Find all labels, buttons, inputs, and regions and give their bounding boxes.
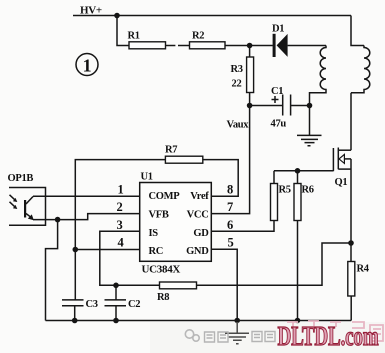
node opto emitter junction: [55, 217, 61, 223]
wire R1 to R2 with dashed break: [166, 45, 190, 47]
svg-text:R3: R3: [231, 64, 243, 75]
resistor R1: [128, 31, 166, 49]
resistor R6: [294, 171, 314, 321]
wire GND pin 5 to bottom rail: [211, 249, 237, 320]
wire secondary to Q1 drain: [350, 93, 352, 150]
wire top rail HV+: [73, 15, 351, 17]
svg-text:GD: GD: [193, 228, 209, 239]
svg-text:U1: U1: [141, 172, 153, 183]
svg-text:C3: C3: [86, 299, 98, 310]
svg-text:VCC: VCC: [187, 209, 209, 220]
capacitor C1: [250, 86, 310, 130]
wire top rail to transformer secondary: [351, 16, 364, 46]
wire R7 right to Vref pin 8: [203, 160, 238, 197]
svg-text:UC384X: UC384X: [142, 264, 181, 276]
svg-text:Q1: Q1: [335, 177, 348, 188]
svg-text:Vref: Vref: [190, 191, 209, 202]
node bottom ground junction: [234, 318, 240, 324]
wire RC junction to pin 4: [75, 249, 139, 251]
ground at C1: [297, 106, 322, 146]
node R6 bottom junction: [295, 318, 301, 324]
node junction HV+: [114, 13, 120, 19]
node C3 bottom junction: [72, 318, 78, 324]
wire D1 to transformer primary: [288, 45, 326, 47]
svg-text:IS: IS: [149, 228, 159, 239]
node Q1 source junction: [348, 240, 354, 246]
wire Q1 source down to R4: [350, 159, 352, 262]
wire R7 left to vertical feedback net: [75, 160, 165, 250]
svg-text:R4: R4: [357, 264, 370, 275]
svg-text:R2: R2: [192, 31, 204, 42]
wire IS pin 3 to R8: [100, 231, 160, 285]
wire Vaux to VCC pin 7: [211, 106, 249, 214]
resistor R5: [271, 171, 291, 221]
transistor Q1 MOSFET: [333, 148, 351, 189]
wire R8 to Q1 source node: [197, 243, 352, 285]
node R6 top junction: [295, 168, 301, 174]
svg-text:RC: RC: [149, 246, 164, 257]
svg-text:COMP: COMP: [149, 191, 181, 202]
resistor R7: [165, 145, 203, 164]
svg-text:5: 5: [228, 236, 234, 250]
node C2 bottom junction: [113, 318, 119, 324]
capacitor C3: [62, 299, 98, 321]
svg-text:8: 8: [227, 183, 233, 197]
IC U1 UC384X: [140, 183, 212, 262]
wire R2 to D1: [225, 45, 273, 47]
svg-text:R7: R7: [165, 145, 177, 156]
svg-text:OP1B: OP1B: [8, 173, 34, 184]
svg-text:D1: D1: [272, 24, 284, 35]
svg-text:R6: R6: [302, 185, 314, 196]
node RC junction: [73, 247, 79, 253]
node Vaux junction: [247, 103, 253, 109]
svg-text:3: 3: [117, 218, 123, 232]
node C1 ground junction: [307, 103, 313, 109]
svg-text:4: 4: [118, 236, 125, 250]
wire opto emitter to VFB pin 2: [33, 214, 140, 220]
watermark DLTDL.com red: [278, 321, 384, 351]
optocoupler OP1B: [8, 173, 46, 225]
svg-text:R5: R5: [279, 185, 291, 196]
wire HV+ down to R1: [117, 16, 129, 46]
svg-text:2: 2: [117, 200, 123, 214]
wire gate line R5 to Q1 gate: [274, 170, 333, 172]
svg-text:1: 1: [83, 56, 92, 76]
watermark gray text: [205, 332, 276, 343]
svg-text:7: 7: [227, 200, 233, 214]
svg-text:VFB: VFB: [149, 209, 169, 220]
wire opto collector to COMP pin 1: [33, 195, 140, 197]
wire RC junction down to C3: [74, 250, 76, 300]
svg-text:22: 22: [232, 79, 242, 90]
transformer secondary winding: [351, 46, 370, 93]
svg-text:47u: 47u: [271, 119, 287, 130]
circled marker 1: [76, 54, 98, 76]
node C2 top junction: [113, 283, 119, 289]
svg-text:1: 1: [118, 183, 124, 197]
node R3 top junction: [247, 43, 253, 49]
svg-text:C1: C1: [271, 86, 283, 97]
svg-text:HV+: HV+: [80, 5, 102, 17]
svg-text:Vaux: Vaux: [227, 120, 250, 131]
resistor R3: [231, 46, 254, 106]
resistor R8: [157, 282, 197, 303]
transformer primary winding: [310, 46, 327, 106]
svg-text:DLTDL.com: DLTDL.com: [278, 321, 380, 351]
svg-text:C2: C2: [128, 299, 140, 310]
svg-text:R1: R1: [128, 31, 140, 42]
svg-text:6: 6: [227, 218, 233, 232]
watermark wechat icon: [185, 330, 199, 341]
wire GD pin 6 to R5: [211, 221, 274, 232]
diode D1: [272, 24, 288, 58]
wire bottom rail: [46, 320, 352, 322]
ground at bottom rail: [225, 321, 249, 344]
svg-text:R8: R8: [157, 292, 169, 303]
svg-text:GND: GND: [186, 246, 209, 257]
wire emitter junction to bottom rail: [46, 220, 58, 321]
resistor R4: [348, 262, 370, 321]
capacitor C2: [105, 285, 141, 320]
resistor R2: [190, 31, 226, 49]
